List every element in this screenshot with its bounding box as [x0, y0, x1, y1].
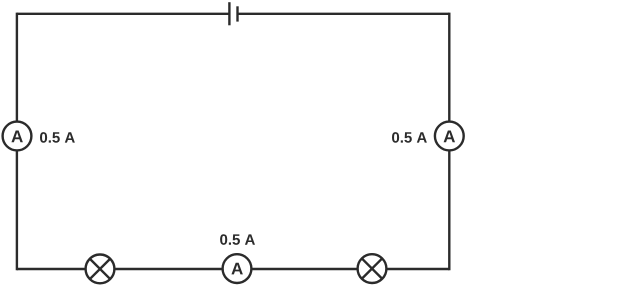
wire: bottom horizontal — [17, 268, 449, 270]
lamp L1 (bottom left) — [86, 255, 115, 284]
ammeter A3 (bottom middle) — [223, 254, 252, 283]
ammeter A1 (left side) — [3, 122, 32, 151]
label 0.5 A (bottom ammeter reading) — [220, 234, 255, 245]
ammeter A2 (right side) — [435, 122, 464, 151]
label 0.5 A (right ammeter reading) — [392, 132, 427, 143]
lamp L2 (bottom right) — [358, 254, 387, 283]
battery cell B1: long plate (left) — [228, 2, 230, 25]
label 0.5 A (left ammeter reading) — [40, 132, 75, 143]
wire: battery right plate to top-right corner — [238, 13, 450, 15]
wire: left side vertical — [16, 13, 18, 271]
wire: right side vertical — [448, 13, 450, 271]
wire: top-left corner to battery left plate — [17, 13, 230, 15]
battery cell B1: short plate (right) — [236, 6, 238, 21]
